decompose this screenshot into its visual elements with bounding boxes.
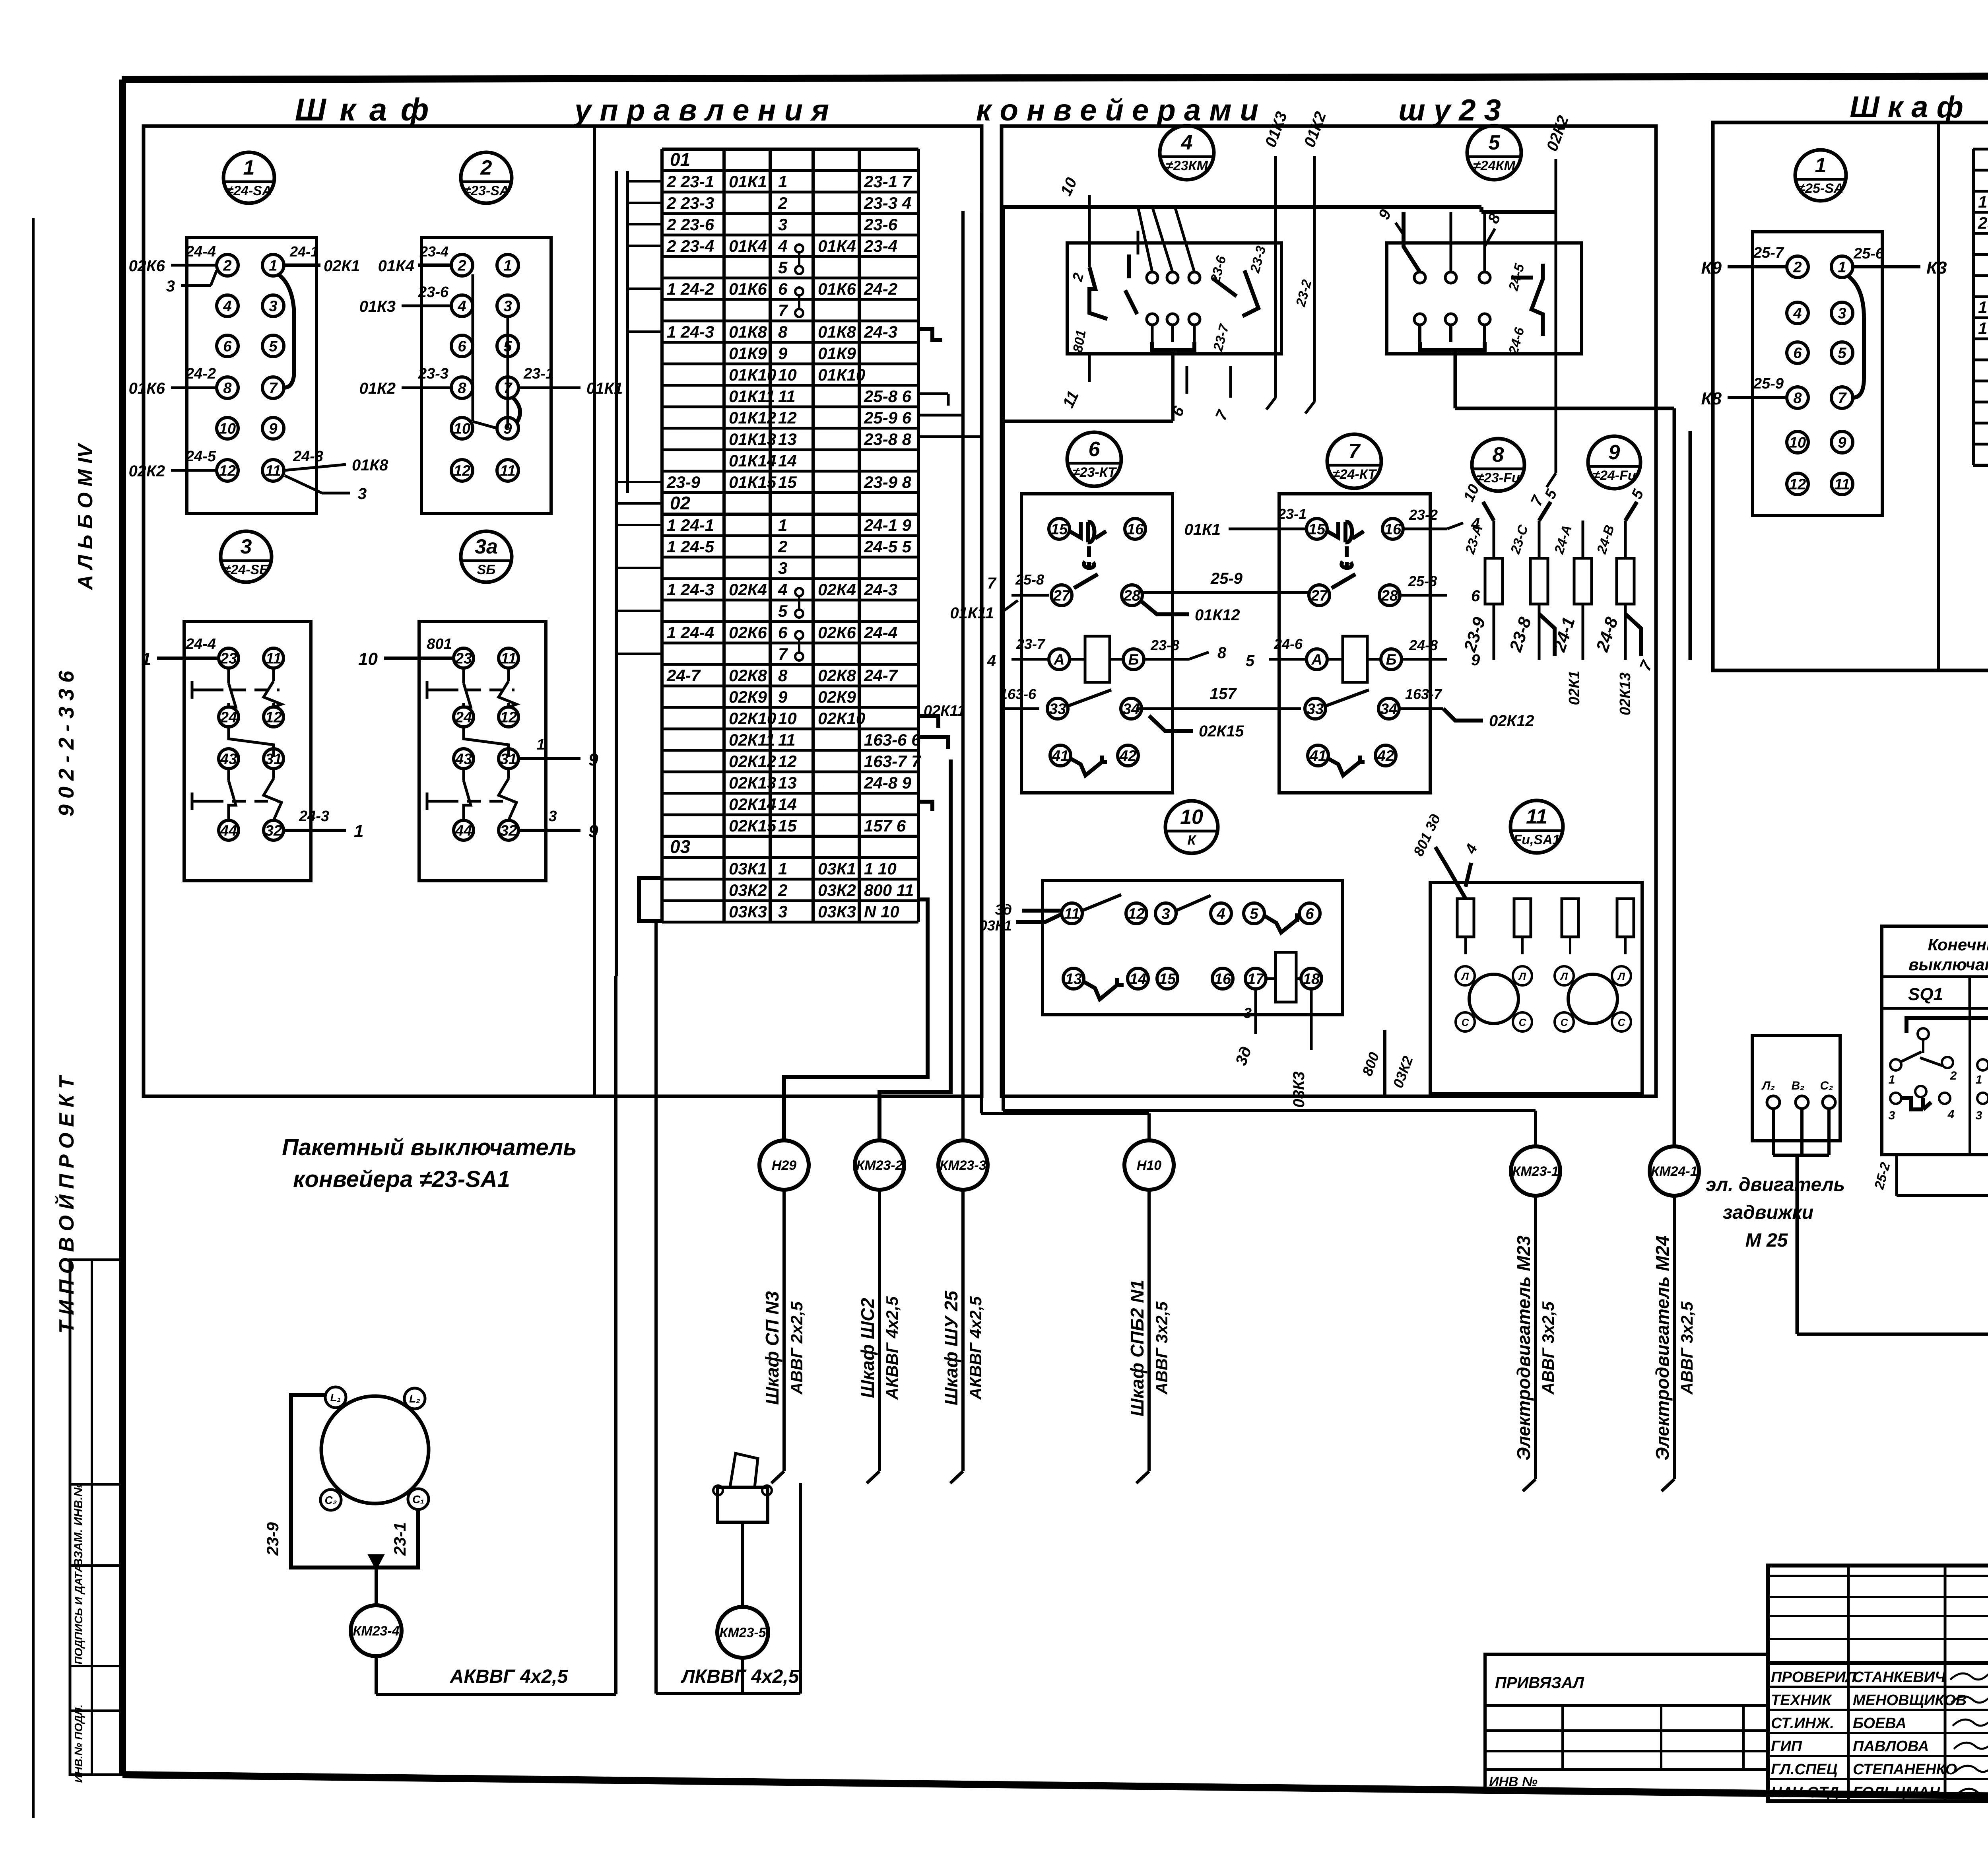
relay K contact 11-12 <box>1082 895 1121 911</box>
svg-text:01К12: 01К12 <box>729 408 776 427</box>
SQ1 switch <box>1889 1028 1957 1122</box>
contactor KM23 mid switch <box>1125 254 1137 314</box>
svg-text:02К4: 02К4 <box>729 580 767 599</box>
connector X25 designator 1/25-SA <box>1795 150 1846 201</box>
wire exit row 25-8 <box>918 394 948 406</box>
svg-text:44: 44 <box>455 822 472 839</box>
svg-text:23-6: 23-6 <box>864 215 898 234</box>
wire KM23 bottom drop <box>1003 366 1173 421</box>
svg-text:11: 11 <box>1526 805 1547 828</box>
cabinet bottom crossing wires <box>784 1096 784 1097</box>
svg-text:≠23-Fu: ≠23-Fu <box>1476 470 1520 486</box>
svg-text:23-7: 23-7 <box>1016 636 1046 652</box>
svg-text:02К4: 02К4 <box>818 580 856 599</box>
svg-text:23-8 8: 23-8 8 <box>864 430 912 449</box>
svg-text:≠24-КТ: ≠24-КТ <box>1332 467 1377 482</box>
svg-text:10: 10 <box>1789 434 1806 451</box>
svg-text:БОЕВА: БОЕВА <box>1853 1715 1906 1732</box>
wire K8 to pin8 <box>1701 375 1787 408</box>
svg-text:6: 6 <box>1471 587 1480 605</box>
svg-text:А: А <box>1053 651 1064 668</box>
svg-text:ш у 2 3: ш у 2 3 <box>1398 93 1501 127</box>
connector X1 designator circle 1/24-SA <box>223 152 274 203</box>
svg-text:Fu,SА1: Fu,SА1 <box>1513 832 1560 847</box>
svg-text:Электродвигатель М24: Электродвигатель М24 <box>1652 1235 1673 1461</box>
K terminal table grid <box>1973 149 1988 465</box>
svg-text:9: 9 <box>778 344 788 363</box>
svg-text:24-2: 24-2 <box>185 365 216 382</box>
command switch symbol <box>713 1453 772 1522</box>
svg-text:02К10: 02К10 <box>818 709 865 728</box>
relay KT23 label 23-7 <box>987 636 1049 670</box>
svg-text:02К15: 02К15 <box>1199 723 1244 740</box>
svg-text:АВВГ 3х2,5: АВВГ 3х2,5 <box>1152 1301 1171 1395</box>
fuse F2 <box>1508 487 1561 660</box>
svg-text:НАЧ ОТД.: НАЧ ОТД. <box>1771 1784 1843 1801</box>
svg-text:К3: К3 <box>1926 258 1947 278</box>
svg-text:10: 10 <box>1180 806 1203 829</box>
svg-text:2: 2 <box>1950 1069 1957 1082</box>
relay K coil 17-18 <box>1266 952 1301 1002</box>
svg-text:А: А <box>1311 651 1322 668</box>
svg-text:АВВГ 3х2,5: АВВГ 3х2,5 <box>1677 1301 1696 1395</box>
header Shkaf <box>295 92 431 127</box>
relay KT23 designator 6 <box>1067 432 1121 486</box>
svg-text:≠24-Fu: ≠24-Fu <box>1592 468 1636 483</box>
relay KT23 label 25-8 <box>987 571 1049 595</box>
svg-text:5: 5 <box>778 602 788 620</box>
svg-text:02К11: 02К11 <box>924 703 965 719</box>
fuse F4 <box>1594 487 1647 660</box>
svg-text:03К1: 03К1 <box>729 859 767 878</box>
svg-text:24-4: 24-4 <box>864 623 897 642</box>
SQ2 switch <box>1976 1028 1988 1122</box>
jumper 02 pins 4-5 <box>795 588 803 618</box>
svg-text:24-7: 24-7 <box>666 666 701 685</box>
packet switch terminal C2 <box>320 1490 341 1510</box>
svg-text:157: 157 <box>1210 685 1237 703</box>
svg-text:33: 33 <box>1307 701 1324 717</box>
svg-text:02К1: 02К1 <box>324 257 360 275</box>
svg-text:КМ23-3: КМ23-3 <box>940 1158 986 1173</box>
svg-text:12: 12 <box>1789 476 1806 493</box>
wire 10 to SB3a pin23 <box>358 636 452 669</box>
svg-text:23-3: 23-3 <box>418 365 448 382</box>
svg-text:01К13: 01К13 <box>729 430 776 449</box>
wire to KM23-5 <box>741 1522 744 1607</box>
cable label KM23-3 left <box>941 1290 985 1406</box>
wire riser B KM23-5 cable <box>654 921 658 1694</box>
svg-text:С: С <box>1519 1016 1527 1028</box>
margin stamp text 2 <box>72 1564 85 1665</box>
svg-text:АВВГ 3х2,5: АВВГ 3х2,5 <box>1539 1301 1557 1395</box>
svg-text:2: 2 <box>778 881 787 899</box>
svg-text:9: 9 <box>1609 441 1620 464</box>
svg-text:5: 5 <box>1250 905 1258 922</box>
svg-text:ПРИВЯЗАЛ: ПРИВЯЗАЛ <box>1495 1674 1584 1692</box>
wire SB3a pin32 to 9 <box>519 808 598 841</box>
svg-text:12: 12 <box>265 709 282 726</box>
wire below KM24-1 <box>1662 1196 1674 1491</box>
svg-text:41: 41 <box>1309 748 1326 764</box>
svg-text:1 25-7: 1 25-7 <box>1978 319 1988 338</box>
svg-text:1: 1 <box>142 649 151 669</box>
packet switch title <box>282 1134 577 1192</box>
jumper 01 pins 4-5 <box>795 245 803 274</box>
wire 01K2 vertical <box>1247 109 1330 414</box>
svg-text:5: 5 <box>1246 652 1255 670</box>
header shu23 <box>1398 93 1501 127</box>
svg-text:01К1: 01К1 <box>1184 521 1221 538</box>
svg-text:01К8: 01К8 <box>818 322 856 341</box>
svg-text:1 25-6: 1 25-6 <box>1978 192 1988 211</box>
wire pin11 to 01K8 <box>284 448 388 474</box>
cabinet box Shkaf upravleniya <box>144 126 982 1096</box>
svg-text:Л: Л <box>1518 970 1526 982</box>
svg-text:Шкаф СПБ2 N1: Шкаф СПБ2 N1 <box>1127 1280 1147 1416</box>
svg-text:13: 13 <box>778 773 797 792</box>
svg-text:12: 12 <box>1128 905 1145 922</box>
svg-text:02К8: 02К8 <box>818 666 856 685</box>
svg-text:01К9: 01К9 <box>818 344 856 363</box>
svg-text:ИНВ №: ИНВ № <box>1489 1774 1538 1789</box>
wire 01K4 to pin2 <box>378 243 451 275</box>
svg-text:С₂: С₂ <box>1820 1079 1833 1092</box>
wire exit row 25-9 <box>918 414 963 417</box>
svg-text:01К8: 01К8 <box>729 322 767 341</box>
wire 02K2 to pin12 <box>129 448 217 480</box>
svg-text:ПРОВЕРИЛ: ПРОВЕРИЛ <box>1771 1669 1856 1686</box>
svg-text:34: 34 <box>1123 701 1140 717</box>
svg-text:01К4: 01К4 <box>818 237 856 255</box>
K terminal table labels <box>1978 150 1988 464</box>
svg-text:23-4: 23-4 <box>864 237 897 255</box>
connector X1 block <box>187 237 316 513</box>
svg-text:у п р а в л е н и я: у п р а в л е н и я <box>573 93 829 127</box>
svg-text:33: 33 <box>1049 701 1066 717</box>
relay KT24 label 24-6 <box>1246 636 1307 670</box>
jumper 02 pins 6-7 <box>795 631 803 660</box>
relay KT23 label 23-8 8 <box>1145 637 1227 662</box>
wire table left feeder b <box>626 171 629 493</box>
svg-text:23: 23 <box>220 650 237 667</box>
margin stamp column <box>70 1260 121 1775</box>
svg-text:01: 01 <box>670 149 690 170</box>
svg-text:11: 11 <box>1834 476 1850 493</box>
cable label KM23-1 <box>1513 1235 1557 1461</box>
cable label H29 <box>762 1291 806 1405</box>
svg-text:1: 1 <box>778 172 787 191</box>
svg-text:9: 9 <box>588 822 598 841</box>
wire below KM23-2 <box>867 1190 879 1483</box>
wire 157 link <box>1138 685 1301 709</box>
svg-text:ГОЛЬЦМАН: ГОЛЬЦМАН <box>1853 1784 1941 1801</box>
svg-text:3: 3 <box>778 215 787 234</box>
svg-text:01К10: 01К10 <box>729 365 776 384</box>
svg-text:24: 24 <box>455 709 472 726</box>
title block outline <box>1768 1566 1988 1801</box>
svg-text:02К13: 02К13 <box>729 773 776 792</box>
svg-text:4: 4 <box>987 652 996 670</box>
svg-text:2: 2 <box>778 194 787 212</box>
wire 02K6 to pin2 <box>129 243 217 275</box>
wire riser 2013 <box>799 1483 802 1694</box>
svg-text:Электродвигатель М23: Электродвигатель М23 <box>1513 1235 1534 1461</box>
svg-text:2: 2 <box>1793 259 1802 276</box>
svg-text:3: 3 <box>1838 305 1846 322</box>
relay KT24 label 01K1 <box>1184 506 1307 538</box>
svg-text:01К11: 01К11 <box>729 387 775 406</box>
svg-text:1 24-2: 1 24-2 <box>667 280 714 298</box>
header konveyerami <box>976 93 1258 127</box>
svg-text:3: 3 <box>241 535 252 558</box>
svg-text:8: 8 <box>1793 390 1802 406</box>
svg-text:Л₂: Л₂ <box>1761 1079 1775 1092</box>
svg-text:4: 4 <box>223 298 231 315</box>
svg-text:3а: 3а <box>475 535 498 558</box>
wire riser to H10 <box>981 211 1149 1140</box>
wire 01K3 to pin4 <box>359 284 451 315</box>
svg-text:02К6: 02К6 <box>818 623 856 642</box>
contactor KM23 bottom bracket <box>1152 325 1194 366</box>
svg-text:12: 12 <box>778 408 797 427</box>
svg-text:КМ23-5: КМ23-5 <box>719 1625 766 1640</box>
svg-text:01К3: 01К3 <box>359 298 396 315</box>
contactor KM24 crossing wires <box>1375 206 1505 272</box>
svg-text:11: 11 <box>1064 905 1079 922</box>
wire KM23-1 feeder <box>1003 1111 1536 1146</box>
svg-text:24-2: 24-2 <box>864 280 897 298</box>
wire pin1 to 02K1 <box>284 243 360 275</box>
cable circle H10 <box>1124 1140 1174 1190</box>
svg-text:3: 3 <box>166 278 175 295</box>
wire 01K6 to pin8 <box>129 365 217 397</box>
wire K9 to pin2 <box>1701 245 1787 278</box>
margin text tipovoy proekt <box>54 1074 78 1333</box>
wire bus drop left <box>1002 207 1005 1111</box>
svg-text:16: 16 <box>1127 521 1144 538</box>
wire exit row 24-3 <box>918 329 942 340</box>
svg-text:5: 5 <box>269 338 278 355</box>
svg-text:АКВВГ 4х2,5: АКВВГ 4х2,5 <box>883 1296 901 1400</box>
svg-text:Б: Б <box>1386 651 1397 668</box>
svg-text:1 24-4: 1 24-4 <box>667 623 714 642</box>
svg-text:02К10: 02К10 <box>729 709 776 728</box>
svg-text:43: 43 <box>455 751 472 767</box>
cabinet box Shkaf zadvizhki ShU25 <box>1713 122 1988 670</box>
wire 01K2 to pin8 <box>359 365 451 397</box>
header Shkaf zadvizhki <box>1850 90 1963 124</box>
svg-text:4: 4 <box>778 580 787 599</box>
svg-text:3: 3 <box>358 485 367 503</box>
fuse F3 <box>1551 521 1592 660</box>
svg-text:24-5: 24-5 <box>185 448 216 465</box>
contact block SB 3a <box>419 622 546 881</box>
fuse block designator 11 <box>1510 800 1563 853</box>
svg-text:03К3: 03К3 <box>729 902 767 921</box>
svg-text:ПАВЛОВА: ПАВЛОВА <box>1853 1738 1929 1755</box>
svg-text:23-1: 23-1 <box>1277 506 1307 522</box>
svg-text:6: 6 <box>778 623 788 642</box>
relay KT24 label 163-7 <box>1398 686 1534 730</box>
fuse block 11 feeder <box>1410 811 1481 899</box>
margin text project number <box>54 670 78 816</box>
contactor KM24 pins bottom <box>1414 314 1490 325</box>
svg-text:02К13: 02К13 <box>1617 672 1634 715</box>
svg-text:≠24КМ: ≠24КМ <box>1473 158 1515 173</box>
contactor KM23 designator 4 <box>1160 126 1214 180</box>
connector X2 block <box>421 237 551 513</box>
relay KT24 block <box>1279 494 1430 793</box>
terminal table grid <box>662 149 918 922</box>
title block left grid <box>1768 1566 1988 1801</box>
svg-text:01К1: 01К1 <box>729 172 767 191</box>
SQ bottom bus <box>1872 1155 1988 1196</box>
svg-text:24-5 5: 24-5 5 <box>864 537 912 556</box>
contactor KM24 designator 5 <box>1467 126 1521 180</box>
svg-text:8: 8 <box>458 380 466 396</box>
svg-text:24-1: 24-1 <box>289 243 318 260</box>
svg-text:157 6: 157 6 <box>864 816 906 835</box>
svg-text:ГИП: ГИП <box>1771 1738 1802 1755</box>
svg-text:25-8: 25-8 <box>1408 573 1437 589</box>
svg-text:9: 9 <box>588 750 598 769</box>
svg-text:9: 9 <box>1471 651 1480 669</box>
wire to KM23-4 <box>375 1568 378 1605</box>
wire table row stubs <box>616 181 662 654</box>
svg-text:13: 13 <box>778 430 797 449</box>
svg-text:5: 5 <box>1489 131 1501 154</box>
svg-text:СТЕПАНЕНКО: СТЕПАНЕНКО <box>1853 1761 1957 1778</box>
SQ table outline <box>1882 926 1988 1155</box>
packet switch motor circle <box>321 1396 429 1503</box>
svg-text:12: 12 <box>219 462 236 479</box>
svg-text:М 25: М 25 <box>1745 1230 1788 1251</box>
svg-text:16: 16 <box>1214 971 1231 987</box>
svg-text:МЕНОВЩИКОВ: МЕНОВЩИКОВ <box>1853 1692 1967 1709</box>
svg-text:≠23-SA: ≠23-SA <box>463 183 509 198</box>
svg-text:25-9 6: 25-9 6 <box>864 408 912 427</box>
svg-text:44: 44 <box>220 822 237 839</box>
svg-text:23-1: 23-1 <box>523 365 554 382</box>
wire exit 03K2 row <box>784 899 928 1140</box>
svg-text:АКВВГ 4х2,5: АКВВГ 4х2,5 <box>966 1296 985 1400</box>
svg-text:3: 3 <box>778 559 787 577</box>
svg-text:41: 41 <box>1052 748 1069 764</box>
wire exit 03K1 left hook <box>639 878 662 921</box>
wire below H29 <box>771 1190 784 1483</box>
relay KT23 label 163-6 <box>924 686 1039 719</box>
svg-text:163-7 7: 163-7 7 <box>864 752 921 771</box>
svg-text:24-7: 24-7 <box>864 666 898 685</box>
svg-text:01К6: 01К6 <box>818 280 856 298</box>
svg-text:1 24-3: 1 24-3 <box>667 580 714 599</box>
svg-text:01К12: 01К12 <box>1195 606 1240 624</box>
svg-text:01К6: 01К6 <box>129 380 165 397</box>
svg-text:1: 1 <box>503 257 512 274</box>
svg-text:25-7: 25-7 <box>1753 245 1784 261</box>
svg-text:4: 4 <box>1947 1108 1955 1121</box>
svg-text:С: С <box>1618 1016 1626 1028</box>
svg-text:3: 3 <box>1889 1109 1895 1122</box>
svg-text:03К3: 03К3 <box>1290 1071 1308 1107</box>
svg-text:Л: Л <box>1560 970 1568 982</box>
svg-text:23-9: 23-9 <box>263 1522 282 1556</box>
wire stub 6 <box>1169 366 1188 419</box>
svg-text:15: 15 <box>1309 521 1326 538</box>
svg-text:01К8: 01К8 <box>352 456 388 474</box>
cable circle KM23-2 <box>855 1140 904 1190</box>
svg-text:АВВГ 2х2,5: АВВГ 2х2,5 <box>787 1301 806 1395</box>
relay K designator 10 <box>1165 801 1218 853</box>
relay K left labels <box>979 901 1061 934</box>
contactor KM23 left feeder <box>1057 175 1089 411</box>
svg-text:11: 11 <box>778 387 796 406</box>
svg-text:01К6: 01К6 <box>729 280 767 298</box>
cabinet box middle section <box>1002 126 1656 1096</box>
svg-text:163-7: 163-7 <box>1405 686 1442 702</box>
svg-text:02К12: 02К12 <box>729 752 776 771</box>
frame left <box>119 80 126 1775</box>
svg-text:23-1: 23-1 <box>390 1522 409 1556</box>
wire exit row 23-8 <box>918 435 981 438</box>
wire X2 pin7 hook pin9 <box>513 398 520 422</box>
svg-text:10: 10 <box>778 365 797 384</box>
svg-text:3: 3 <box>1244 1005 1252 1021</box>
svg-text:3: 3 <box>269 298 277 315</box>
svg-text:2 23-4: 2 23-4 <box>666 237 714 255</box>
contactor KM23 pins bottom <box>1147 314 1200 325</box>
svg-text:23: 23 <box>455 650 472 667</box>
svg-text:КМ23-2: КМ23-2 <box>856 1158 903 1173</box>
motor M b <box>1555 966 1631 1031</box>
svg-text:1: 1 <box>536 736 545 753</box>
svg-text:14: 14 <box>778 795 797 814</box>
fuse wire labels below <box>1460 614 1656 715</box>
wire below KM23-1 <box>1523 1196 1536 1491</box>
svg-text:24-1 9: 24-1 9 <box>864 516 912 534</box>
svg-text:1: 1 <box>778 516 787 534</box>
svg-text:10: 10 <box>454 420 470 437</box>
svg-text:14: 14 <box>778 451 797 470</box>
svg-text:КМ23-4: КМ23-4 <box>353 1624 399 1639</box>
packet switch wire box <box>263 1395 418 1568</box>
svg-text:3д: 3д <box>995 901 1012 918</box>
svg-text:3: 3 <box>778 902 787 921</box>
svg-text:8: 8 <box>778 322 788 341</box>
svg-text:11: 11 <box>500 462 515 479</box>
svg-text:8: 8 <box>778 666 788 685</box>
relay KT23 label 01K12 <box>1140 600 1240 624</box>
bus top horizontal <box>1002 207 1556 212</box>
svg-text:23-9: 23-9 <box>666 473 701 491</box>
wire exit row 163-7 <box>918 737 948 749</box>
contactor KM23 left pole <box>1069 243 1107 354</box>
relay KT23 label 02K15 <box>1149 716 1244 740</box>
header upravleniya <box>573 93 829 127</box>
packet switch terminal L1 <box>325 1387 346 1408</box>
svg-text:≠23КМ: ≠23КМ <box>1166 158 1208 173</box>
fuse block 11 box <box>1430 882 1642 1094</box>
wire pin1 hook to pin7 <box>278 274 294 388</box>
svg-text:4: 4 <box>1181 131 1193 154</box>
cable circle KM24-1 <box>1650 1146 1699 1196</box>
svg-text:6: 6 <box>778 280 788 298</box>
frame bottom <box>122 1775 1988 1803</box>
relay K contact 5-6 <box>1264 913 1299 932</box>
contactor KM24 pins top <box>1414 272 1490 283</box>
svg-text:02: 02 <box>670 493 691 513</box>
